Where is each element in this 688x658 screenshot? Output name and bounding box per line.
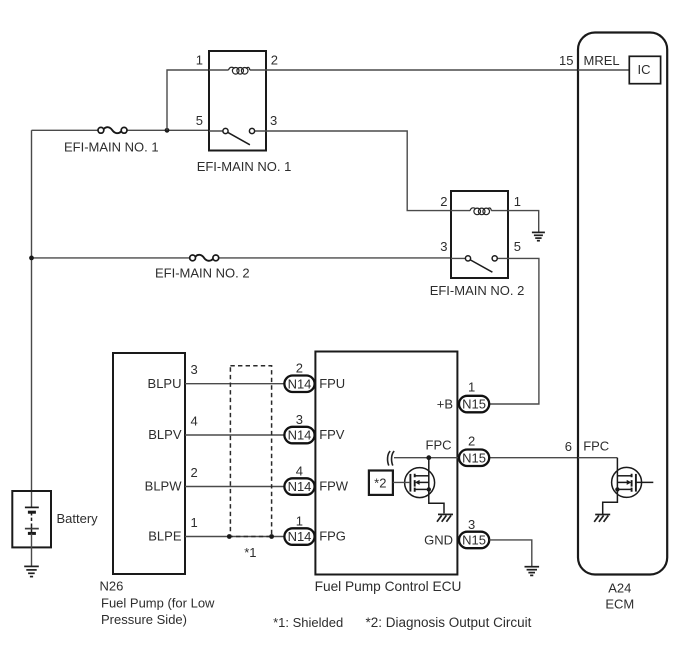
fuse EFI-MAIN NO. 1	[98, 127, 127, 133]
svg-text:N15: N15	[462, 397, 486, 412]
svg-text:2: 2	[271, 52, 278, 67]
wire GND to ground	[489, 540, 532, 566]
connector N14 FPW	[284, 478, 314, 495]
svg-text:IC: IC	[638, 62, 651, 77]
svg-text:1: 1	[296, 513, 303, 528]
wire FPC to ECM	[489, 457, 617, 459]
svg-text:Fuel Pump Control ECU: Fuel Pump Control ECU	[315, 579, 462, 594]
svg-text:FPU: FPU	[319, 376, 345, 391]
wire BLPE to FPG	[185, 536, 284, 538]
transistor Q2 ECM	[603, 458, 654, 515]
wire relay2 pin5 to +B	[489, 258, 539, 404]
earth ground battery	[24, 566, 39, 576]
continuation squiggles	[388, 451, 395, 466]
relay2 coil	[451, 208, 508, 215]
svg-text:N14: N14	[288, 479, 312, 494]
wire relay2 pin1 to ground	[508, 211, 539, 232]
svg-text:5: 5	[514, 239, 521, 254]
svg-text:FPV: FPV	[319, 427, 345, 442]
node junction bus/relay1	[165, 128, 170, 133]
svg-text:1: 1	[196, 52, 203, 67]
node shield left on BLPE	[227, 534, 232, 539]
svg-text:Fuel Pump (for Low: Fuel Pump (for Low	[101, 596, 215, 611]
svg-text:*2: *2	[374, 475, 386, 490]
svg-text:N15: N15	[462, 533, 486, 548]
svg-text:EFI-MAIN NO. 2: EFI-MAIN NO. 2	[430, 283, 525, 298]
chassis ground Q1	[437, 514, 453, 521]
svg-text:6: 6	[565, 439, 572, 454]
battery cell plates	[25, 492, 39, 533]
wire fused feed no.2 (y=258)	[32, 257, 452, 259]
relay EFI-MAIN NO. 1 box	[209, 51, 266, 151]
IC box	[629, 56, 660, 83]
svg-text:2: 2	[191, 465, 198, 480]
svg-text:N14: N14	[288, 529, 312, 544]
svg-text:1: 1	[191, 515, 198, 530]
svg-text:3: 3	[296, 412, 303, 427]
svg-text:N14: N14	[288, 428, 312, 443]
svg-text:EFI-MAIN NO. 1: EFI-MAIN NO. 1	[197, 159, 292, 174]
svg-text:FPC: FPC	[583, 439, 609, 454]
connector N15 FPC	[459, 450, 489, 467]
svg-text:*1: *1	[244, 545, 256, 560]
relay1 coil	[209, 67, 266, 74]
svg-text:FPW: FPW	[319, 479, 349, 494]
svg-text:2: 2	[468, 433, 475, 448]
relay EFI-MAIN NO. 2 box	[451, 191, 508, 278]
earth ground relay2	[532, 232, 545, 240]
svg-text:3: 3	[270, 113, 277, 128]
svg-text:FPG: FPG	[319, 529, 346, 544]
connector N15 +B	[459, 396, 489, 413]
node FPC junction	[426, 455, 431, 460]
svg-text:GND: GND	[424, 533, 453, 548]
svg-text:2: 2	[296, 361, 303, 376]
wire BLPU to FPU	[185, 383, 284, 385]
wire relay1 pin3 to relay2 coil pin2	[266, 131, 451, 211]
battery box	[12, 491, 51, 547]
svg-text:*2: Diagnosis Output Circuit: *2: Diagnosis Output Circuit	[366, 615, 532, 630]
transistor Q1 fuel pump control ECU	[405, 458, 444, 514]
svg-text:*1: Shielded: *1: Shielded	[273, 615, 343, 630]
svg-text:EFI-MAIN NO. 1: EFI-MAIN NO. 1	[64, 139, 159, 154]
svg-text:BLPV: BLPV	[148, 427, 182, 442]
connector N14 FPU	[284, 376, 314, 393]
wire fused feed no.1 (y=130)	[32, 129, 210, 131]
svg-text:3: 3	[468, 517, 475, 532]
connector N15 GND	[459, 532, 489, 549]
diagnosis box *2	[369, 471, 393, 495]
svg-text:4: 4	[191, 413, 198, 428]
svg-text:15: 15	[559, 53, 573, 68]
svg-text:Pressure Side): Pressure Side)	[101, 612, 187, 627]
svg-text:BLPW: BLPW	[145, 479, 183, 494]
svg-text:A24: A24	[608, 580, 631, 595]
wire FPC internal	[394, 457, 459, 459]
fuel pump N26 box	[113, 353, 185, 574]
chassis ground Q2	[594, 515, 610, 522]
wire *2 to gate	[393, 481, 410, 483]
svg-text:4: 4	[296, 463, 303, 478]
svg-text:5: 5	[196, 113, 203, 128]
fuse EFI-MAIN NO. 2	[190, 255, 219, 261]
svg-text:N26: N26	[100, 579, 124, 594]
svg-text:3: 3	[440, 239, 447, 254]
svg-text:N15: N15	[462, 450, 486, 465]
svg-text:BLPE: BLPE	[148, 529, 182, 544]
wire battery negative to ground	[31, 533, 33, 566]
wire BLPV to FPV	[185, 434, 284, 436]
connector N14 FPG	[284, 528, 314, 545]
wire FPC inside ECM	[578, 457, 617, 459]
wire BLPW to FPW	[185, 486, 284, 488]
svg-text:2: 2	[440, 194, 447, 209]
svg-text:FPC: FPC	[426, 437, 452, 452]
wire junction to relay1 coil pin 1	[167, 70, 209, 130]
shield dashed box *1	[230, 366, 271, 537]
svg-text:N14: N14	[288, 376, 312, 391]
svg-text:BLPU: BLPU	[148, 376, 182, 391]
node junction bus/feed2	[29, 256, 34, 261]
svg-text:EFI-MAIN NO. 2: EFI-MAIN NO. 2	[155, 265, 250, 280]
svg-text:+B: +B	[437, 397, 453, 412]
fuel pump control ECU box	[315, 352, 457, 575]
relay1 switch	[209, 128, 266, 144]
node shield right on BLPE	[269, 534, 274, 539]
relay2 switch	[451, 256, 508, 272]
wire MREL inside ECM	[578, 69, 630, 71]
ECM A24 box	[578, 33, 667, 575]
wire battery positive bus	[31, 130, 33, 507]
svg-text:Battery: Battery	[57, 511, 99, 526]
wire relay1 pin2 to ECM MREL	[266, 69, 630, 71]
svg-text:1: 1	[468, 379, 475, 394]
earth ground GND pin	[525, 567, 540, 576]
svg-text:1: 1	[514, 194, 521, 209]
svg-text:MREL: MREL	[584, 53, 620, 68]
svg-text:ECM: ECM	[605, 597, 634, 612]
svg-text:3: 3	[191, 362, 198, 377]
connector N14 FPV	[284, 427, 314, 444]
